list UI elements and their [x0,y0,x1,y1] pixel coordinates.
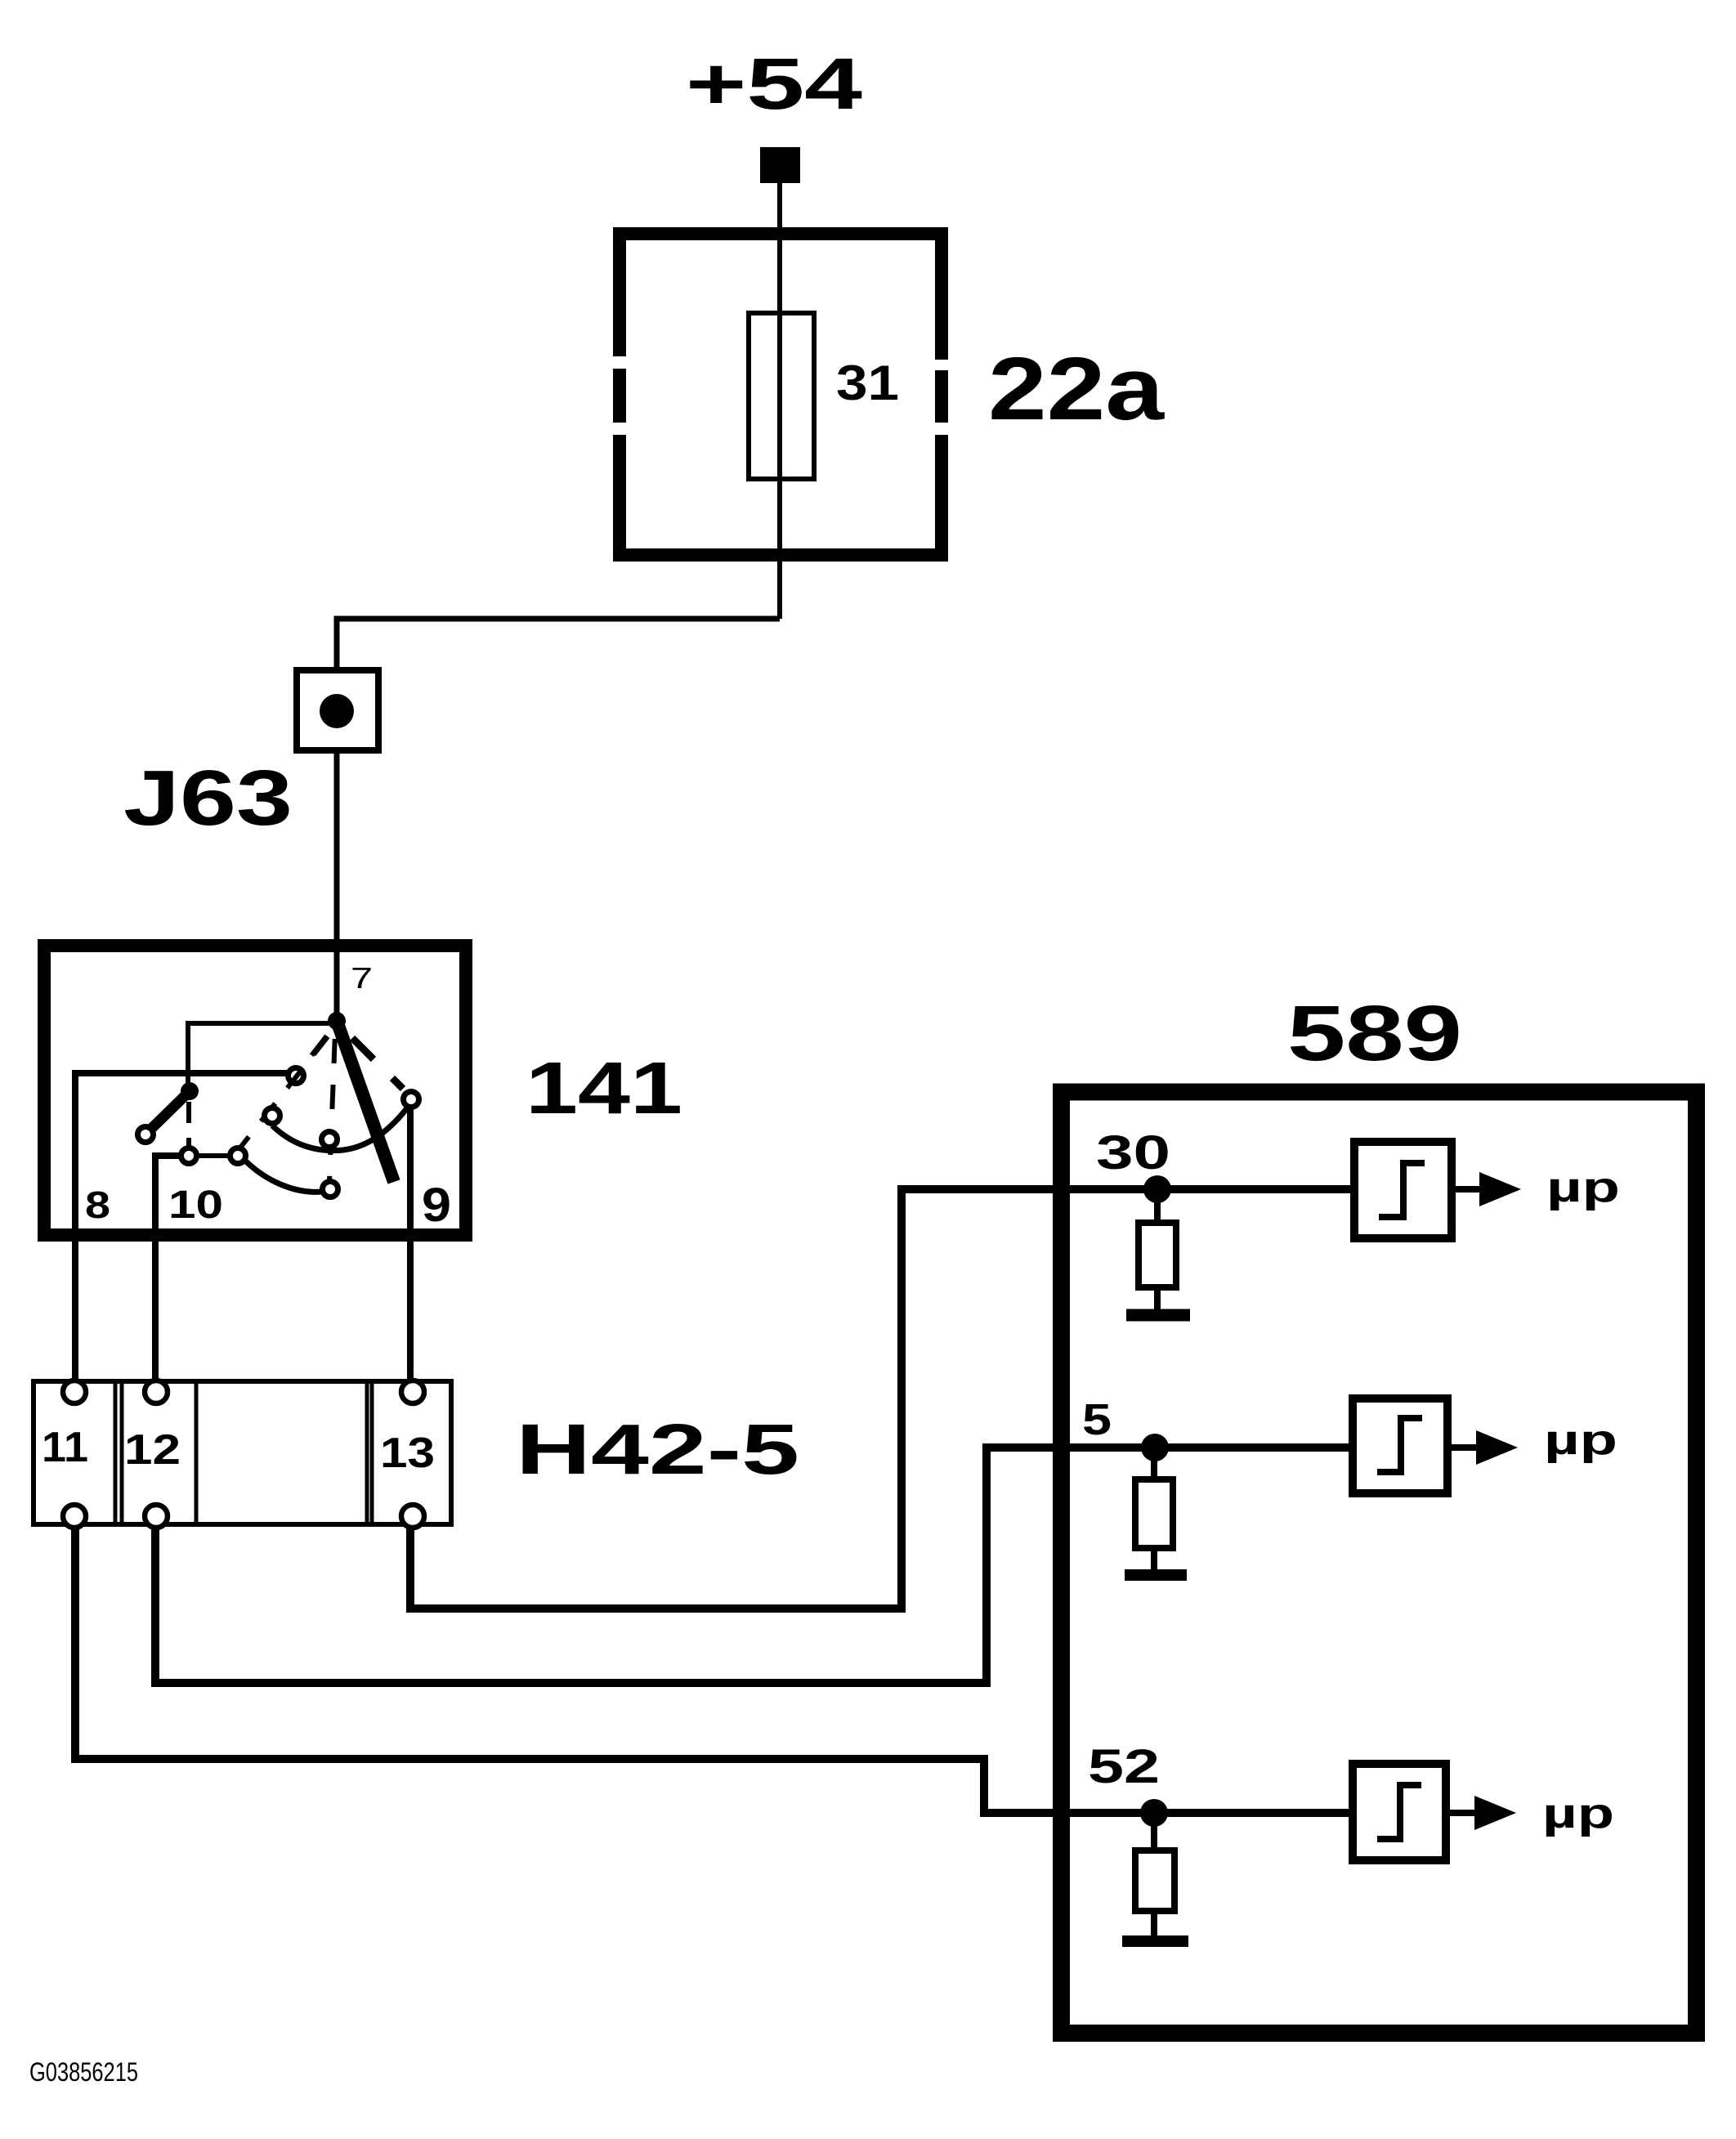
resistor R2 lead top [1151,1461,1157,1479]
svg-text:30: 30 [1096,1126,1170,1179]
wire pin 9 [407,1108,414,1381]
svg-text:31: 31 [836,356,899,410]
svg-text:G03856215: G03856215 [29,2057,138,2087]
svg-text:13: 13 [380,1430,435,1477]
resistor R1 [1139,1223,1176,1287]
arc arrow barb [392,1078,403,1089]
switch arm [337,1021,394,1182]
curve ring F to ring D [246,1161,322,1192]
control unit 589 box [1062,1092,1697,2034]
connector J63 contact dot [320,694,354,728]
contact ring D [323,1182,338,1197]
svg-text:7: 7 [351,961,373,995]
resistor R3 lead top [1151,1826,1157,1850]
U3 output lead [1446,1810,1474,1816]
svg-text:µp: µp [1546,1164,1620,1211]
resistor R3 [1135,1850,1174,1911]
wire +54 down through fuse [777,183,782,619]
U2 step symbol [1377,1418,1422,1472]
node 52 junction dot [1140,1799,1168,1827]
connector H42-5 body [34,1381,451,1524]
terminal circle 13 top [401,1381,424,1403]
U3 output arrow [1474,1796,1516,1830]
wire fuse box to J63 [337,619,780,667]
ground bar row 52 [1122,1935,1188,1947]
ground bar row 5 [1125,1569,1187,1581]
contact ring H [138,1127,154,1143]
svg-text:5: 5 [1082,1395,1112,1444]
svg-text:J63: J63 [123,754,293,842]
schmitt trigger U1 box [1354,1142,1452,1238]
ignition switch 141 box [44,946,466,1235]
U2 output lead [1447,1444,1476,1451]
svg-text:22a: 22a [988,339,1166,439]
svg-text:11: 11 [42,1424,88,1471]
contact ring E [404,1092,419,1108]
connector J63 box [297,670,378,750]
svg-text:12: 12 [124,1426,181,1474]
contact ring B [265,1108,280,1124]
left contact lever [150,1091,190,1130]
switch pivot dot [328,1012,346,1030]
wire pin 13 to node 30 [410,1189,1350,1609]
ground bar row 30 [1126,1309,1190,1322]
terminal circle 13 bottom [401,1505,424,1528]
divider cell2 left [120,1381,124,1524]
link ring G to ring F [197,1153,230,1158]
svg-text:141: 141 [526,1048,682,1130]
fuse element 31 [749,313,814,479]
wire pin 11 to node 52 [75,1528,1349,1813]
node 5 junction dot [1141,1434,1169,1461]
svg-text:µp: µp [1542,1790,1614,1837]
U3 step symbol [1377,1785,1421,1839]
resistor R1 ground lead [1154,1287,1161,1311]
divider cell3 left inner [370,1381,374,1524]
dashed ray pivot through B to F [240,1031,332,1148]
svg-text:µp: µp [1544,1416,1617,1464]
schmitt trigger U2 box [1353,1398,1447,1493]
U1 step symbol [1379,1163,1425,1217]
divider cell3 left outer [365,1381,369,1524]
wire pin 8 [75,1073,288,1381]
terminal circle 11 top [63,1381,86,1403]
divider cell1 right [114,1381,118,1524]
svg-text:8: 8 [85,1184,110,1226]
fuse box 22a right border (dashed) [935,227,948,562]
contact ring F [230,1148,246,1164]
svg-text:10: 10 [168,1184,223,1227]
dashed ray pivot through C to D [329,1032,335,1182]
wire pivot to left contact [188,1023,330,1084]
arm arrow barb [352,1038,374,1059]
U1 output arrow [1479,1172,1521,1206]
dashed ray pivot to ring A [304,1031,330,1065]
svg-text:9: 9 [422,1179,451,1232]
terminal circle 12 top [145,1381,168,1403]
terminal square +54 [760,147,800,183]
U2 output arrow [1476,1430,1518,1465]
selector arc [272,1105,409,1151]
wire pin 12 to node 5 [155,1448,1349,1683]
terminal circle 12 bottom [145,1505,168,1528]
svg-text:589: 589 [1287,990,1462,1077]
svg-text:52: 52 [1088,1740,1160,1793]
node 30 junction dot [1143,1175,1171,1203]
divider cell2 right [195,1381,199,1524]
resistor R2 ground lead [1151,1548,1157,1569]
wire pin 10 [155,1156,181,1381]
contact ring G [181,1148,197,1164]
resistor R2 [1135,1479,1173,1548]
terminal circle 11 bottom [63,1505,86,1528]
contact ring A [289,1068,304,1084]
fuse box 22a top border [613,227,948,240]
left contact dot [181,1082,199,1100]
U1 output lead [1452,1186,1479,1193]
resistor R1 lead top [1154,1202,1161,1223]
dashed link left dot to ring G [186,1102,191,1147]
fuse box 22a left border (dashed) [613,227,626,562]
svg-text:+54: +54 [686,43,863,124]
resistor R3 ground lead [1151,1911,1157,1935]
schmitt trigger U3 box [1353,1764,1446,1860]
contact ring C [322,1132,338,1148]
wire J63 to switch pin 7 [334,750,340,1021]
svg-text:H42-5: H42-5 [516,1410,799,1489]
fuse box 22a bottom border [613,548,948,562]
